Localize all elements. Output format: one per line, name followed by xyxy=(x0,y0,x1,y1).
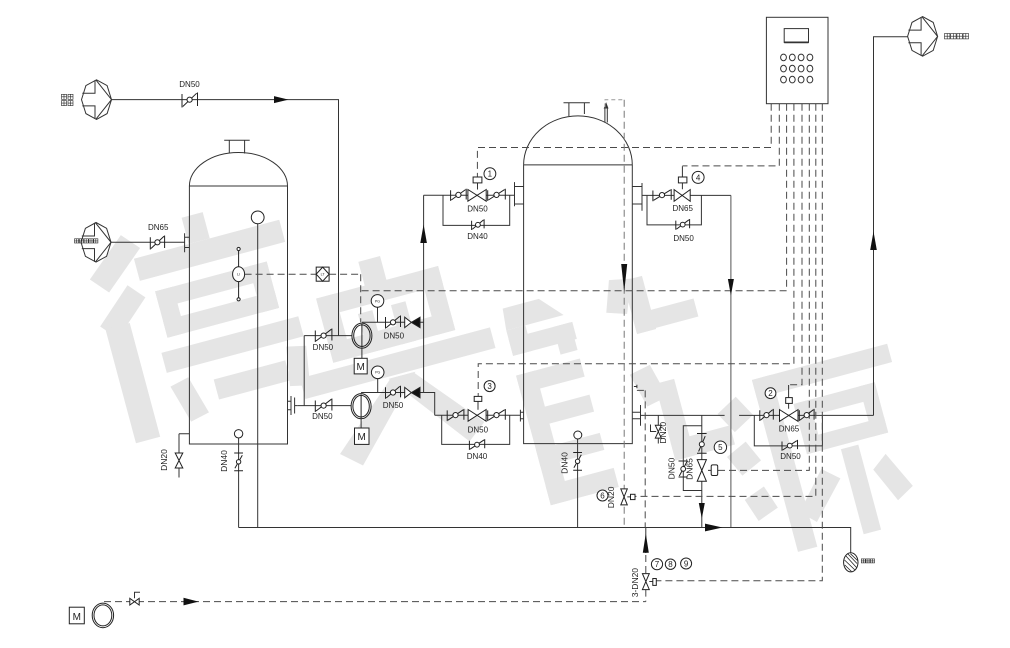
svg-text:DN50: DN50 xyxy=(467,205,488,214)
svg-text:DN20: DN20 xyxy=(159,449,169,471)
svg-text:6: 6 xyxy=(600,491,605,500)
svg-text:8: 8 xyxy=(668,560,673,569)
svg-text:1: 1 xyxy=(488,170,493,179)
svg-text:DN50: DN50 xyxy=(780,452,801,461)
svg-text:DN50: DN50 xyxy=(468,426,489,435)
svg-text:2: 2 xyxy=(768,389,773,398)
svg-text:LI: LI xyxy=(237,273,240,277)
svg-text:DN20: DN20 xyxy=(658,422,668,444)
svg-text:DN50: DN50 xyxy=(667,457,677,479)
svg-text:DN20: DN20 xyxy=(606,486,616,508)
svg-text:DN50: DN50 xyxy=(673,234,694,243)
svg-text:DN65: DN65 xyxy=(685,458,695,480)
svg-text:M: M xyxy=(357,362,365,373)
svg-text:DN40: DN40 xyxy=(560,452,570,474)
svg-text:3: 3 xyxy=(487,382,492,391)
svg-text:DN65: DN65 xyxy=(779,425,800,434)
svg-text:DN50: DN50 xyxy=(384,332,405,341)
svg-text:M: M xyxy=(358,432,366,443)
svg-text:5: 5 xyxy=(718,443,723,452)
svg-text:DN50: DN50 xyxy=(313,343,334,352)
svg-text:DN40: DN40 xyxy=(467,232,488,241)
svg-text:DN40: DN40 xyxy=(219,450,229,472)
svg-text:PG: PG xyxy=(375,371,380,375)
svg-text:4: 4 xyxy=(696,173,701,182)
svg-text:DN65: DN65 xyxy=(148,223,169,232)
svg-text:7: 7 xyxy=(655,560,660,569)
svg-text:DN50: DN50 xyxy=(383,401,404,410)
svg-text:DN50: DN50 xyxy=(312,412,333,421)
svg-text:DN40: DN40 xyxy=(467,452,488,461)
svg-text:DN50: DN50 xyxy=(179,80,200,89)
svg-text:DN65: DN65 xyxy=(672,204,693,213)
svg-text:9: 9 xyxy=(684,559,689,568)
svg-text:M: M xyxy=(73,612,81,623)
svg-text:3-DN20: 3-DN20 xyxy=(630,568,640,598)
svg-text:PG: PG xyxy=(375,299,380,303)
